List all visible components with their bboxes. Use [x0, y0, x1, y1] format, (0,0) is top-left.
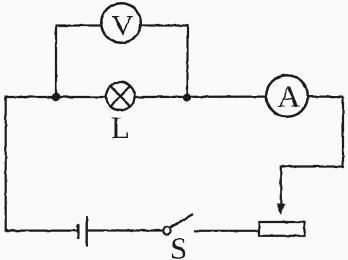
ammeter A [266, 75, 308, 117]
wire top-left horizontal (V branch) [56, 24, 102, 26]
battery [78, 216, 87, 247]
svg-text:S: S [170, 231, 187, 260]
wire left vertical drop of V branch [55, 25, 57, 98]
rheostat slider arrow [276, 166, 285, 216]
wire bottom from battery to switch [88, 229, 163, 231]
wire middle horizontal from lamp to ammeter [134, 95, 267, 98]
switch S [163, 214, 193, 234]
voltmeter V [101, 3, 141, 43]
rheostat R body [259, 222, 305, 236]
wire bottom from switch to rheostat [194, 230, 259, 232]
wire horizontal toward rheostat slider [281, 165, 344, 167]
wire bottom from left rail to battery [5, 230, 78, 232]
wire top-right horizontal (V branch) [140, 24, 188, 26]
wire middle horizontal from ammeter to right rail [308, 95, 344, 97]
node junction left [52, 93, 60, 101]
wire left rail vertical [5, 96, 7, 232]
wire right rail vertical [342, 97, 344, 167]
lamp L [106, 82, 134, 110]
node junction right [183, 93, 191, 101]
wire middle horizontal from left rail to lamp [5, 96, 106, 98]
svg-text:V: V [112, 11, 134, 42]
svg-text:A: A [278, 79, 301, 114]
wire right vertical drop of V branch [186, 25, 188, 98]
svg-text:L: L [111, 110, 130, 145]
